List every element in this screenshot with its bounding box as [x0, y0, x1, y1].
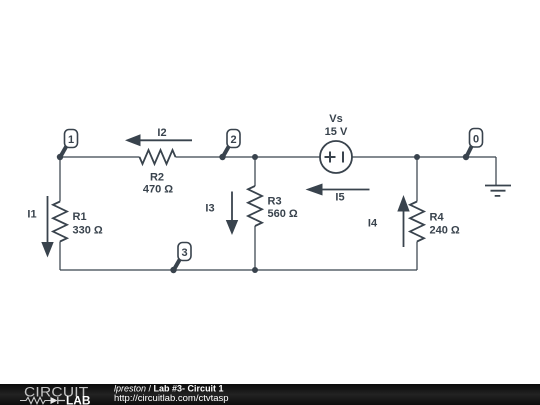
svg-text:560 Ω: 560 Ω: [268, 208, 298, 220]
node 2 flag: [219, 130, 240, 161]
wire right vertical to ground: [495, 157, 497, 185]
svg-text:330 Ω: 330 Ω: [73, 225, 103, 237]
svg-text:0: 0: [473, 134, 479, 146]
svg-text:1: 1: [68, 134, 74, 146]
svg-text:LAB: LAB: [66, 394, 91, 405]
wire R4 branch top: [416, 157, 418, 202]
svg-text:3: 3: [181, 247, 187, 259]
current arrow I1: [41, 196, 53, 258]
I1 label: [27, 209, 36, 221]
current arrow I4: [397, 195, 409, 247]
wire bottom horizontal: [60, 269, 417, 271]
current arrow I3: [226, 192, 238, 236]
resistor R3 zigzag: [248, 186, 262, 226]
I5 label: [335, 192, 344, 204]
footer url text: [114, 393, 229, 404]
svg-text:R4: R4: [430, 212, 445, 224]
logo LAB text: [66, 394, 91, 405]
voltage source Vs circle: [320, 141, 352, 173]
resistor R4 zigzag: [410, 202, 424, 242]
node 3 flag: [170, 243, 191, 274]
svg-text:15 V: 15 V: [325, 126, 348, 138]
wire left vertical (node1 down to R1): [59, 157, 61, 202]
logo resistor zigzag and diode: [20, 397, 65, 404]
svg-text:I2: I2: [157, 127, 166, 139]
svg-text:I3: I3: [205, 203, 214, 215]
svg-text:lpreston / Lab #3- Circuit 1: lpreston / Lab #3- Circuit 1: [114, 383, 224, 393]
R4 value label: [430, 212, 460, 237]
svg-text:240 Ω: 240 Ω: [430, 225, 460, 237]
ground: [485, 186, 511, 196]
svg-text:I1: I1: [27, 209, 36, 221]
svg-text:R1: R1: [73, 211, 87, 223]
Vs name and value label: [325, 113, 348, 138]
svg-text:R3: R3: [268, 196, 282, 208]
R3 value label: [268, 196, 298, 221]
svg-text:470 Ω: 470 Ω: [143, 184, 173, 196]
footer black bar: [0, 384, 540, 405]
current arrow I5: [306, 184, 370, 196]
node 1 flag: [57, 130, 78, 161]
R2 value label: [143, 172, 173, 196]
svg-text:I5: I5: [335, 192, 344, 204]
wire R3 to bottom: [254, 226, 256, 270]
wire R1 to bottom: [59, 242, 61, 271]
junction R4 top: [414, 154, 420, 160]
node 0 flag: [463, 129, 483, 161]
wire voltage source to right corner: [352, 156, 496, 158]
logo CIRCUIT text: [24, 385, 89, 400]
I3 label: [205, 203, 214, 215]
junction node 2-R3: [252, 154, 258, 160]
resistor R2 zigzag: [140, 150, 176, 164]
wire R3 branch top: [254, 157, 256, 186]
svg-text:R2: R2: [150, 172, 164, 184]
current arrow I2: [125, 134, 192, 146]
svg-text:I4: I4: [368, 218, 378, 230]
junction R3 bottom: [252, 267, 258, 273]
svg-text:http://circuitlab.com/ctvtasp: http://circuitlab.com/ctvtasp: [114, 393, 229, 404]
svg-text:Vs: Vs: [329, 113, 342, 125]
I4 label: [368, 218, 378, 230]
wire R4 to bottom: [416, 242, 418, 271]
wire top-left horizontal (node1 to R2): [60, 156, 140, 158]
svg-text:2: 2: [230, 134, 236, 146]
wire R2 to voltage source: [176, 156, 321, 158]
R1 value label: [73, 211, 103, 237]
footer title text: [114, 383, 224, 393]
resistor R1 zigzag: [53, 202, 67, 242]
I2 label: [157, 127, 166, 139]
